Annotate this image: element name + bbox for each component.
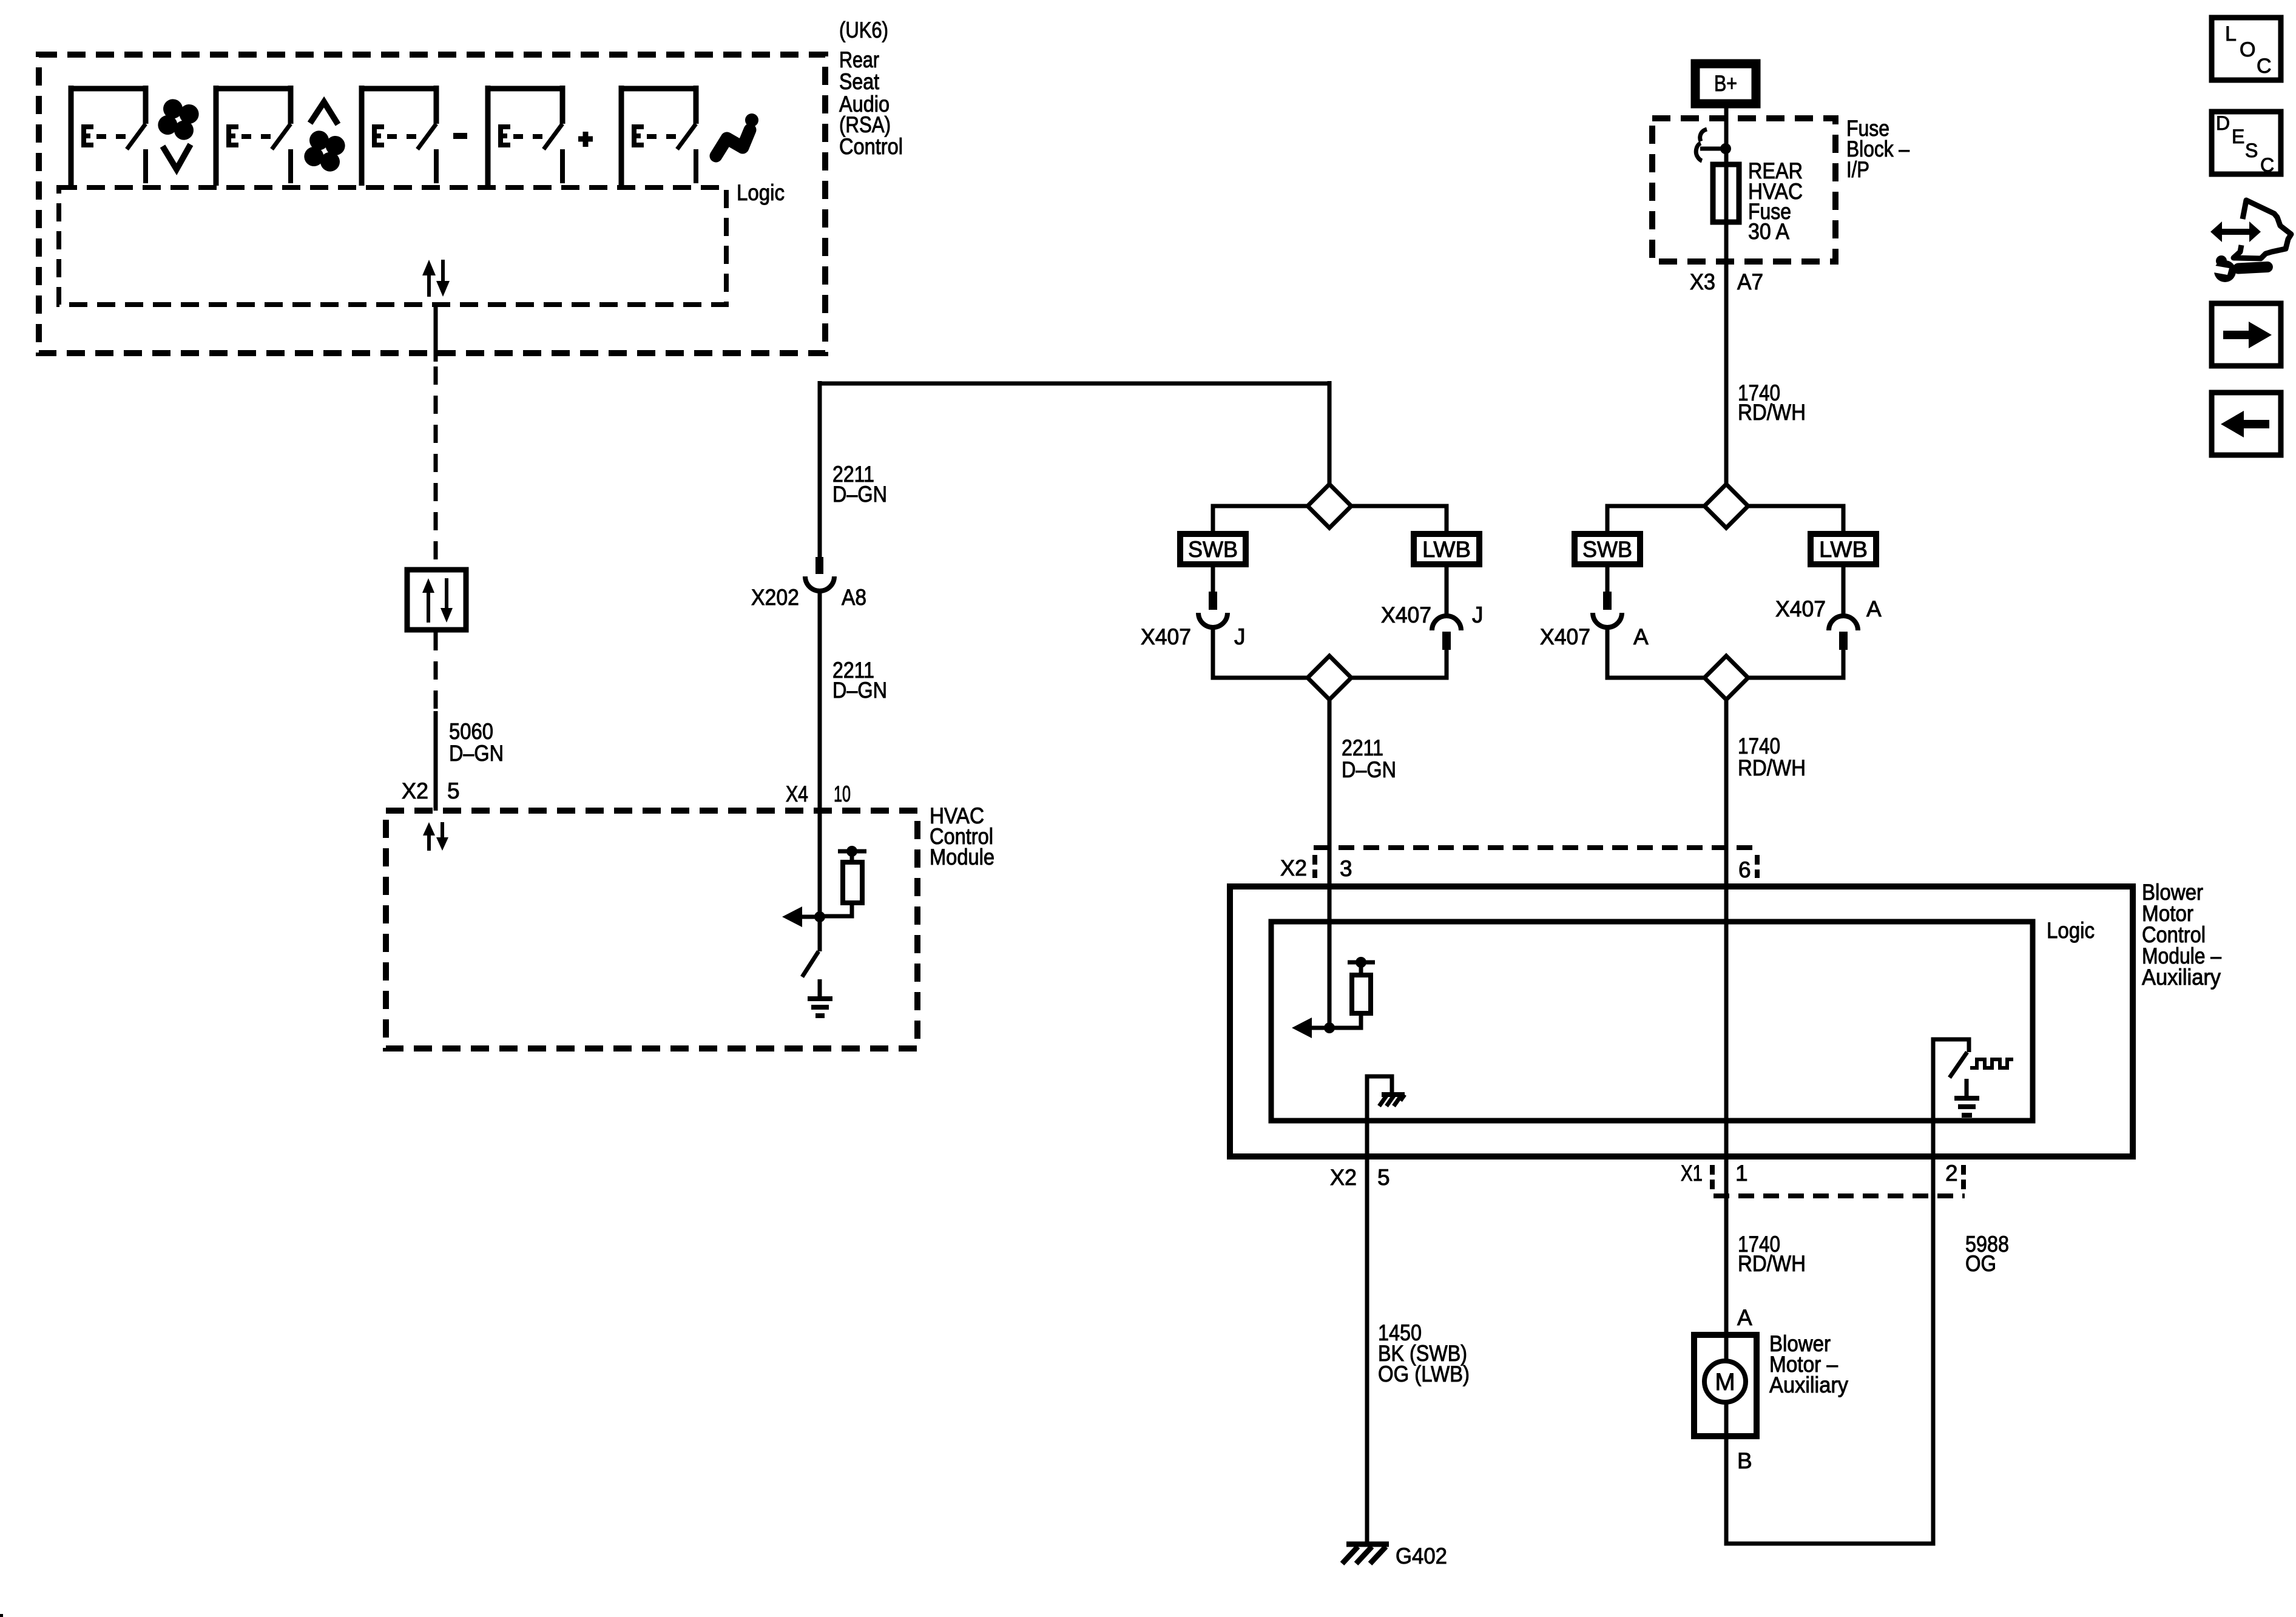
- label Blower Motor Control Module - Auxiliary: [2142, 880, 2221, 990]
- label 1740 RD/WH (above right splice): [1738, 380, 1806, 425]
- svg-text:SWB: SWB: [1582, 537, 1632, 562]
- wire SWB to connector (right, circuit 1740): [1606, 567, 1610, 592]
- svg-text:6: 6: [1738, 857, 1751, 882]
- wire ground 1450 from X2 5 to G402: [1365, 1156, 1369, 1545]
- wire to LWB branch (left, circuit 2211): [1351, 506, 1447, 531]
- svg-text:D–GN: D–GN: [449, 741, 504, 766]
- label 5060 D-GN: [449, 719, 504, 766]
- page mark bottom-left: [0, 1614, 3, 1617]
- svg-text:OG (LWB): OG (LWB): [1378, 1362, 1470, 1386]
- svg-text:C: C: [2260, 154, 2274, 176]
- pin labels X1 1 2 (blower module bottom): [1681, 1161, 1958, 1186]
- label 2211 D-GN (to blower module): [1342, 735, 1396, 782]
- svg-text:J: J: [1234, 624, 1246, 649]
- pin label A (blower motor): [1737, 1305, 1752, 1330]
- svg-text:B: B: [1737, 1448, 1752, 1473]
- sidebar next arrow button: [2212, 303, 2281, 366]
- switch to ground inside HVAC module: [802, 917, 820, 977]
- pin label X3 A7 (fuse block): [1690, 269, 1763, 294]
- switch S2 (RSA): [214, 86, 291, 186]
- svg-text:1740: 1740: [1738, 734, 1780, 758]
- wire B+ to fuse: [1724, 108, 1729, 164]
- label Logic (blower module): [2047, 918, 2095, 943]
- connector X1 dashed pin line (blower module bottom): [1712, 1165, 1965, 1196]
- pin label X2 5 (HVAC control module): [402, 778, 460, 803]
- svg-text:1: 1: [1735, 1161, 1748, 1186]
- svg-text:2: 2: [1945, 1161, 1958, 1186]
- wire connector to bottom diamond left (left, circuit 2211): [1213, 627, 1308, 678]
- svg-text:Logic: Logic: [737, 180, 785, 205]
- wire LWB to connector (right, circuit 1740): [1842, 567, 1846, 616]
- svg-text:X202: X202: [751, 585, 799, 610]
- svg-text:A: A: [1633, 624, 1649, 649]
- svg-text:5060: 5060: [449, 719, 493, 744]
- svg-text:J: J: [1472, 603, 1484, 627]
- svg-text:RD/WH: RD/WH: [1738, 400, 1806, 425]
- label X407 J (left connector): [1141, 624, 1246, 649]
- node junction with left arrow (signal input) inside blower module: [1292, 1018, 1335, 1038]
- label Rear Seat Audio (RSA) Control: [839, 47, 903, 159]
- splice diamond bottom (left, circuit 2211): [1308, 656, 1351, 700]
- switch S1 (RSA): [69, 86, 146, 186]
- label Logic (RSA): [737, 180, 785, 205]
- wire 2211 D-GN horizontal bus: [820, 382, 1329, 386]
- svg-text:Auxiliary: Auxiliary: [2142, 965, 2221, 990]
- serial data up/down symbol box: [407, 570, 466, 630]
- svg-text:C: C: [2257, 55, 2272, 78]
- ground G402 symbol: [1342, 1544, 1389, 1564]
- svg-text:Module: Module: [930, 845, 994, 869]
- svg-text:RD/WH: RD/WH: [1738, 755, 1806, 780]
- svg-text:A8: A8: [842, 585, 866, 610]
- in-line connector X407 left (left, circuit 2211): [1198, 592, 1227, 627]
- svg-text:X2: X2: [1280, 856, 1307, 880]
- splice diamond top (right, circuit 1740): [1704, 484, 1748, 528]
- label 2211 D-GN (lower): [832, 658, 887, 703]
- sidebar LOC button: [2212, 18, 2281, 80]
- svg-text:O: O: [2240, 38, 2255, 61]
- splice diamond bottom (right, circuit 1740): [1704, 656, 1748, 700]
- label 1740 RD/WH (to motor): [1738, 1232, 1806, 1276]
- wire top bus corner into left splice: [1328, 381, 1332, 484]
- sidebar back arrow button: [2212, 393, 2281, 455]
- wire fuse to X3 A7: [1724, 164, 1729, 484]
- wire 2211 D-GN down to X202: [818, 381, 822, 557]
- ground symbol inside HVAC module: [808, 979, 832, 1016]
- svg-text:30 A: 30 A: [1748, 219, 1789, 244]
- icon seat (power seat): [716, 113, 758, 156]
- svg-text:5: 5: [1377, 1165, 1390, 1190]
- svg-text:E: E: [2232, 126, 2244, 147]
- svg-text:LWB: LWB: [1819, 537, 1868, 562]
- switch S4 (RSA): [485, 86, 562, 186]
- svg-text:LWB: LWB: [1422, 537, 1471, 562]
- label HVAC Control Module: [930, 803, 994, 869]
- svg-text:5: 5: [447, 778, 460, 803]
- fuse REAR HVAC Fuse 30 A: [1713, 164, 1739, 222]
- svg-text:X2: X2: [1330, 1165, 1357, 1190]
- PWM square wave symbol: [1970, 1059, 2013, 1068]
- wire to LWB branch (right, circuit 1740): [1748, 506, 1843, 531]
- icon minus: [453, 133, 467, 139]
- wire 1740 module to blower motor pin A: [1724, 1156, 1729, 1332]
- svg-text:A: A: [1737, 1305, 1752, 1330]
- in-line connector X407 right (right, circuit 1740): [1829, 616, 1858, 650]
- svg-text:X407: X407: [1141, 624, 1191, 649]
- Rear Seat Audio (RSA) Control module dashed box: [39, 55, 825, 353]
- Blower Motor Control Module outer box: [1230, 886, 2133, 1156]
- label Blower Motor - Auxiliary: [1769, 1331, 1848, 1397]
- connector X2 dashed pin line (blower module): [1314, 848, 1757, 878]
- ground symbol inside blower module (PWM): [1954, 1079, 1979, 1115]
- SWB box (left, circuit 2211): [1180, 534, 1246, 564]
- svg-text:X2: X2: [402, 778, 428, 803]
- pin label X4 10 (HVAC control module): [786, 781, 851, 806]
- wire right splice to blower module pin 6: [1724, 700, 1729, 886]
- HVAC Control Module dashed box: [386, 811, 917, 1048]
- sidebar terminal repair icon (double arrow, terminal outline, wrench): [2207, 200, 2291, 282]
- svg-text:X407: X407: [1540, 624, 1590, 649]
- wire SWB to connector (left, circuit 2211): [1211, 567, 1215, 592]
- wire RSA logic to RSA box edge: [434, 305, 438, 362]
- pull-up resistor and supply inside HVAC module: [820, 846, 866, 916]
- wire 2211 D-GN X202 to HVAC X4 10: [818, 591, 822, 917]
- chassis ground symbol inside blower module: [1367, 1076, 1405, 1156]
- svg-text:OG: OG: [1965, 1251, 1996, 1276]
- LWB box (left, circuit 2211): [1414, 534, 1479, 564]
- svg-text:X407: X407: [1775, 596, 1826, 621]
- svg-text:X407: X407: [1381, 603, 1431, 627]
- svg-text:RD/WH: RD/WH: [1738, 1251, 1806, 1276]
- svg-text:Rear: Rear: [839, 47, 879, 72]
- wire connector to bottom diamond right (right, circuit 1740): [1748, 650, 1843, 678]
- svg-text:3: 3: [1340, 856, 1352, 881]
- svg-text:L: L: [2225, 22, 2237, 46]
- label 5988 OG: [1965, 1232, 2009, 1276]
- label REAR HVAC Fuse 30 A: [1748, 158, 1803, 244]
- Blower Motor - Auxiliary box: [1694, 1335, 1757, 1436]
- serial data up/down arrows inside HVAC module: [423, 822, 448, 851]
- svg-text:Seat: Seat: [839, 69, 880, 94]
- in-line connector X407 left (right, circuit 1740): [1593, 592, 1622, 627]
- serial data up/down arrows inside RSA logic: [422, 260, 450, 297]
- in-line connector X407 right (left, circuit 2211): [1432, 616, 1461, 650]
- pin label B (blower motor): [1737, 1448, 1752, 1473]
- PWM low-side switch inside blower module: [1933, 1039, 1969, 1156]
- node junction with left arrow (signal input) inside HVAC: [782, 906, 825, 927]
- icon fan speed down (fan symbol): [155, 96, 201, 143]
- svg-text:Control: Control: [839, 134, 903, 159]
- splice diamond top (left, circuit 2211): [1308, 484, 1351, 528]
- dashed wire up/down box to 5060 wire: [434, 632, 438, 711]
- icon fan speed up (fan symbol): [302, 128, 348, 174]
- dashed wire RSA to up/down box: [434, 366, 438, 567]
- svg-text:D–GN: D–GN: [832, 678, 887, 703]
- svg-text:M: M: [1715, 1369, 1735, 1396]
- label X202 A8: [751, 585, 866, 610]
- svg-text:(RSA): (RSA): [839, 112, 891, 137]
- pull-up resistor and supply inside blower module: [1329, 957, 1375, 1028]
- label 1450 BK (SWB) OG (LWB): [1378, 1320, 1470, 1386]
- svg-text:SWB: SWB: [1188, 537, 1238, 562]
- icon chevron down: [163, 144, 191, 169]
- switch S5 (RSA): [619, 86, 696, 186]
- RSA Logic inner dashed box: [59, 187, 726, 305]
- svg-text:Auxiliary: Auxiliary: [1769, 1372, 1848, 1397]
- wire connector to bottom diamond left (right, circuit 1740): [1607, 627, 1704, 678]
- wire 5060 D-GN: [434, 711, 438, 811]
- wire to SWB branch (left, circuit 2211): [1213, 506, 1308, 531]
- label X407 A (left connector): [1540, 624, 1649, 649]
- in-line connector X202 pin A8: [805, 557, 834, 591]
- wire to SWB branch (right, circuit 1740): [1607, 506, 1704, 531]
- wire connector to bottom diamond right (left, circuit 2211): [1351, 650, 1447, 678]
- svg-text:I/P: I/P: [1846, 157, 1869, 182]
- Blower module Logic inner box: [1271, 922, 2033, 1121]
- svg-text:2211: 2211: [1342, 735, 1383, 760]
- svg-text:D–GN: D–GN: [832, 482, 887, 507]
- svg-text:10: 10: [834, 781, 851, 806]
- svg-text:S: S: [2245, 140, 2258, 161]
- SWB box (right, circuit 1740): [1575, 534, 1640, 564]
- pin labels X2 5 (blower module bottom): [1330, 1165, 1390, 1190]
- fuse clip hook: [1696, 129, 1731, 161]
- LWB box (right, circuit 1740): [1811, 534, 1876, 564]
- label X407 A (right connector): [1775, 596, 1882, 621]
- svg-text:X4: X4: [786, 781, 808, 806]
- svg-text:X1: X1: [1681, 1161, 1703, 1186]
- sidebar DESC button: [2212, 112, 2281, 176]
- label 2211 D-GN (upper): [832, 462, 887, 507]
- label G402: [1396, 1544, 1447, 1568]
- svg-text:Logic: Logic: [2047, 918, 2095, 943]
- svg-text:A7: A7: [1737, 269, 1763, 294]
- wire 1740 through blower module: [1724, 886, 1729, 1156]
- wire left splice to blower module X2 3: [1328, 700, 1332, 886]
- battery feed B+: [1695, 64, 1756, 104]
- svg-text:B+: B+: [1714, 71, 1737, 96]
- svg-text:G402: G402: [1396, 1544, 1447, 1568]
- label (UK6): [839, 18, 888, 42]
- Fuse Block - I/P dashed box: [1652, 118, 1835, 262]
- svg-text:X3: X3: [1690, 269, 1715, 294]
- wire 5988 OG loop motor B to module pin 2: [1726, 1156, 1933, 1544]
- svg-text:D–GN: D–GN: [1342, 757, 1396, 782]
- icon chevron up: [310, 102, 338, 124]
- label 1740 RD/WH (to blower module): [1738, 734, 1806, 780]
- label X407 J (right connector): [1381, 603, 1484, 627]
- svg-text:D: D: [2216, 112, 2230, 134]
- label Fuse Block - I/P: [1846, 116, 1909, 182]
- svg-text:A: A: [1866, 596, 1882, 621]
- motor M circle: [1704, 1332, 1746, 1439]
- svg-text:(UK6): (UK6): [839, 18, 888, 42]
- icon plus: [578, 132, 593, 147]
- pin labels X2 3 6 (blower module): [1280, 856, 1751, 882]
- wire 2211 through module to internal driver: [1328, 886, 1332, 1028]
- wire LWB to connector (left, circuit 2211): [1445, 567, 1449, 616]
- switch S3 (RSA): [359, 86, 436, 186]
